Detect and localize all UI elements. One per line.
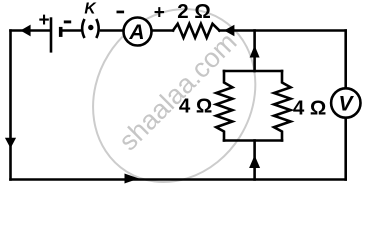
arrow current top-left pointing left [20,25,30,37]
wire battery to key [61,29,80,32]
wire left side vertical [9,31,12,180]
wire top-left from corner to battery [11,29,51,32]
watermark logo ellipse [61,0,288,213]
svg-text:K: K [84,0,97,17]
wire parallel block bottom rail [224,139,282,142]
watermark text shaalaa.com [113,27,242,156]
label ammeter minus [117,11,125,14]
key K right parenthesis [96,19,98,38]
svg-text:+: + [38,10,49,31]
wire right side upper (top corner to voltmeter) [344,31,347,88]
arrow current left-side pointing down [5,138,16,149]
arrow current bottom pointing right [125,174,140,184]
wire bottom horizontal [11,178,346,181]
arrow current feed-top pointing up [250,45,260,57]
wire feed bottom (parallel block to bottom wire) [253,141,256,180]
resistor R1 2ohm horizontal zigzag [173,24,219,38]
resistor R2 4ohm left vertical zigzag [216,71,232,141]
svg-text:A: A [128,21,144,44]
wire ammeter to resistor R1 [152,29,173,32]
ammeter U1 circle [124,18,152,46]
wire feed top (junction to parallel block) [253,31,256,72]
svg-text:4 Ω: 4 Ω [179,94,213,117]
svg-text:+: + [154,3,165,24]
wire key to ammeter [101,29,124,32]
wire parallel block top rail [224,70,282,73]
resistor R3 4ohm right vertical zigzag [274,71,291,141]
voltmeter U2 circle [331,88,360,117]
svg-text:V: V [338,93,354,116]
key K left parenthesis [82,19,84,38]
wire resistor R1 to top-right corner [219,29,345,32]
battery plate positive (long) [50,17,53,52]
label battery minus [64,20,71,23]
arrow current feed-bottom pointing up [249,155,260,168]
wire right side lower (voltmeter to bottom corner) [344,119,347,180]
key K dot [88,25,93,30]
svg-text:2 Ω: 2 Ω [177,0,211,23]
svg-text:4 Ω: 4 Ω [293,97,327,120]
arrow current top-middle pointing left [224,25,234,36]
battery plate negative (short thick) [59,27,63,37]
